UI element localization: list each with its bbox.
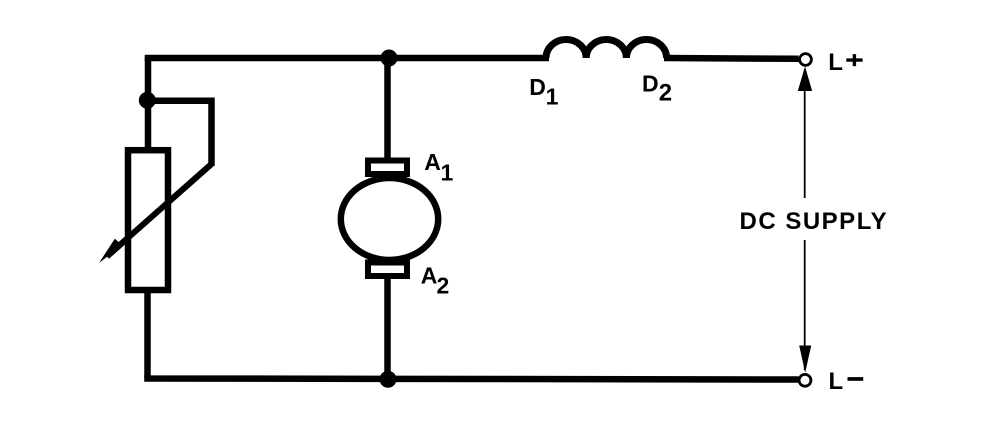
- wire: top rail left segment (corner to inductor): [148, 58, 549, 61]
- DC supply arrowhead up: [798, 67, 812, 92]
- terminal L-: [799, 374, 811, 386]
- svg-text:A: A: [424, 149, 441, 175]
- wire: left vertical (top corner to rheostat top): [145, 57, 152, 150]
- label A2: [421, 263, 449, 299]
- label A1: [424, 149, 453, 186]
- label L-: [829, 368, 864, 395]
- rheostat arrow shaft: [107, 164, 212, 257]
- svg-text:L: L: [829, 368, 844, 395]
- rheostat arrow shaft (over resistor): [113, 164, 212, 251]
- wire: bottom rail: [148, 375, 799, 379]
- resistor body (rheostat): [128, 150, 168, 290]
- DC supply arrow line upper segment: [804, 70, 806, 198]
- DC supply arrow line lower segment: [804, 240, 806, 370]
- svg-text:L: L: [828, 49, 843, 76]
- junction dot (rheostat tap): [139, 92, 156, 109]
- rheostat arrowhead: [99, 239, 122, 263]
- brush A1 (top rectangle): [368, 161, 407, 175]
- label D1: [529, 74, 558, 110]
- label D2: [642, 71, 672, 107]
- motor armature M (circle): [341, 178, 438, 260]
- svg-text:1: 1: [441, 160, 454, 186]
- DC supply arrowhead down: [799, 346, 811, 373]
- junction dot (bottom, motor branch): [380, 371, 397, 388]
- svg-text:DC SUPPLY: DC SUPPLY: [740, 208, 889, 235]
- svg-text:A: A: [421, 263, 438, 289]
- wire: rheostat bottom to bottom rail: [144, 289, 151, 379]
- wire: motor branch top: [384, 58, 391, 162]
- wire: top rail right segment (inductor to L+ terminal): [664, 55, 799, 62]
- brush A2 (bottom rectangle): [368, 263, 407, 277]
- svg-text:1: 1: [546, 84, 559, 110]
- inductor D1-D2 winding: [546, 39, 667, 58]
- junction dot (top, motor branch): [381, 50, 398, 67]
- wire: motor branch bottom: [384, 276, 391, 379]
- svg-text:2: 2: [437, 273, 450, 299]
- terminal L+: [800, 54, 812, 66]
- svg-text:D: D: [529, 74, 546, 100]
- svg-text:2: 2: [659, 80, 672, 107]
- rheostat bypass wire (tap loop): [148, 101, 212, 166]
- svg-text:D: D: [642, 71, 659, 97]
- label L+: [828, 49, 862, 76]
